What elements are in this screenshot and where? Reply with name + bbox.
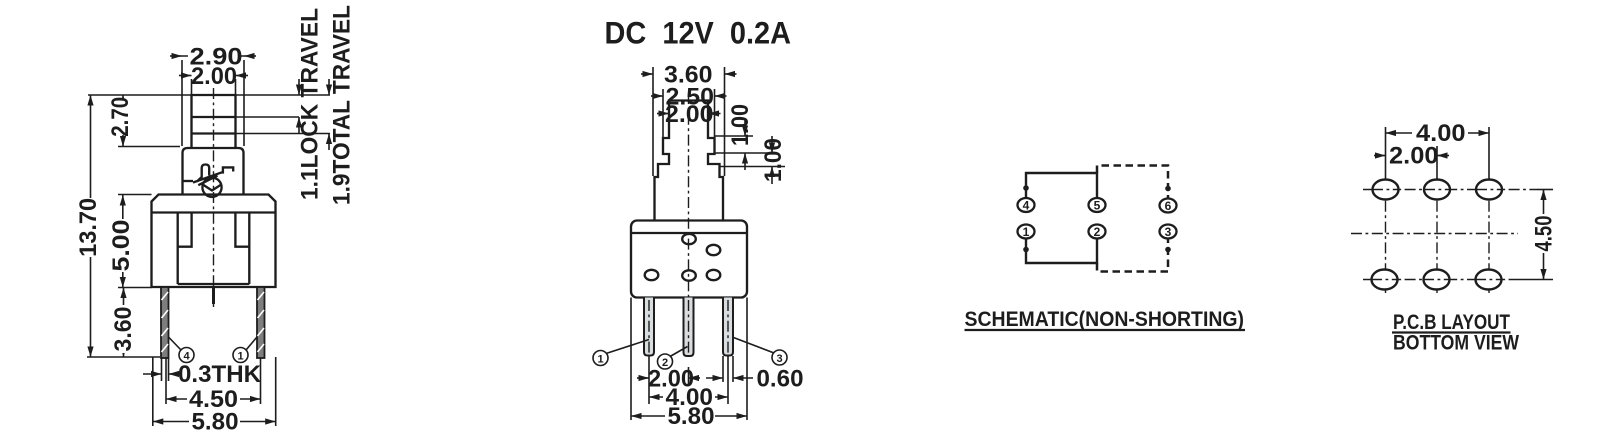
pad 6 row2 xyxy=(1476,270,1502,290)
dimension 3.60 arrows xyxy=(641,73,653,75)
svg-text:SCHEMATIC(NON-SHORTING): SCHEMATIC(NON-SHORTING) xyxy=(965,307,1245,331)
dimension 5.80 extension lines xyxy=(152,357,154,426)
0.3THK pin thickness ticks xyxy=(161,358,163,381)
extension line 5.00 top xyxy=(118,194,152,196)
dimension 0.60 arrows xyxy=(706,377,723,379)
svg-text:0.3THK: 0.3THK xyxy=(178,361,262,388)
junction dot below terminal 3 xyxy=(1165,247,1171,253)
terminal 6 xyxy=(1160,199,1177,213)
plunger wide section xyxy=(183,148,244,195)
dimension 1.00 lower arrows xyxy=(771,136,773,153)
extension line 2.70 bottom xyxy=(118,146,180,148)
bottom extension lines front view xyxy=(630,298,632,421)
svg-text:2.70: 2.70 xyxy=(107,97,134,137)
terminal 4 xyxy=(1018,198,1035,212)
junction dot above terminal 4 xyxy=(1023,185,1029,191)
svg-text:2.00: 2.00 xyxy=(191,63,237,90)
total travel dimension arrows xyxy=(328,79,330,95)
label circle 1 xyxy=(233,337,257,363)
pad 5 row2 xyxy=(1424,270,1450,290)
label circle 1 front xyxy=(593,340,649,366)
body inner bottom line xyxy=(178,283,250,285)
svg-text:1.1LOCK TRAVEL: 1.1LOCK TRAVEL xyxy=(297,8,324,200)
extension line collar top y=166.5 xyxy=(720,166,786,168)
dimension 4.50 line xyxy=(166,398,261,400)
lock cam chimney xyxy=(197,165,209,182)
pad 1 row1 xyxy=(1373,180,1399,200)
top extension line y=95 xyxy=(88,94,330,96)
svg-text:0.60: 0.60 xyxy=(757,366,804,393)
svg-text:5.80: 5.80 xyxy=(192,409,239,436)
pin 4 (left, hatched) xyxy=(161,287,169,358)
dimension 4.50 connector row1 xyxy=(1537,189,1553,191)
column 2 extension line xyxy=(1436,146,1438,180)
svg-text:3: 3 xyxy=(1165,225,1172,239)
switch body front view xyxy=(631,221,747,298)
dimension 2.00 bottom arrows xyxy=(637,377,649,379)
wire solid pole 1-2 xyxy=(1026,240,1097,264)
lock cam left ledge xyxy=(183,180,194,182)
dimension 4.50 line pcb xyxy=(1543,190,1545,280)
dimension 3.60 line xyxy=(123,288,125,358)
svg-text:1.9TOTAL TRAVEL: 1.9TOTAL TRAVEL xyxy=(329,5,356,205)
dimension 4.00 line pcb xyxy=(1386,132,1490,134)
hole mid left xyxy=(645,270,659,280)
dimension 1.00 upper arrows xyxy=(744,119,746,136)
lock cam V mark xyxy=(204,185,221,191)
extension line ring top y=136 xyxy=(715,135,754,137)
junction dot above terminal 6 xyxy=(1165,186,1171,192)
dimension 2.00 extension lines xyxy=(191,79,193,95)
LEFT SIDE VIEW GROUP xyxy=(75,5,356,436)
dimension 5.00 line xyxy=(122,195,124,288)
svg-text:2: 2 xyxy=(1094,225,1101,239)
dimension 4.00 line xyxy=(649,396,728,398)
svg-text:1: 1 xyxy=(597,354,603,366)
extension line pin bottom y=357 xyxy=(87,356,160,358)
svg-text:5: 5 xyxy=(1094,198,1101,212)
terminal 2 xyxy=(1089,225,1106,239)
dimension 5.80 line xyxy=(153,421,276,423)
svg-text:1: 1 xyxy=(1023,225,1030,239)
dimension 3.60 extension lines xyxy=(652,67,654,176)
svg-text:2.00: 2.00 xyxy=(1389,143,1439,170)
front pin 3 (right) xyxy=(723,298,733,356)
plunger stepped shaft front view xyxy=(655,101,724,221)
body inner left vertical xyxy=(177,213,179,285)
hole top center xyxy=(682,234,696,244)
hole mid center xyxy=(682,270,696,280)
lock cam right bracket xyxy=(223,167,233,173)
plunger shaft division line lower (total travel) xyxy=(192,132,236,134)
0.3THK leader arrows xyxy=(143,373,162,375)
lock travel extension line y=117 xyxy=(236,116,300,118)
dimension 2.00 arrows (top) xyxy=(657,113,669,115)
front pin 1 (left) xyxy=(644,298,654,356)
terminal 3 xyxy=(1160,225,1177,239)
svg-text:6: 6 xyxy=(1165,199,1172,213)
dimension 5.80 line front xyxy=(631,415,747,417)
dimension 4.50 connector row2 xyxy=(1512,279,1553,281)
middle horizontal centerline xyxy=(1351,233,1518,235)
plunger shaft division line upper (lock travel) xyxy=(192,116,236,118)
column 2 centerline xyxy=(1436,180,1438,293)
pin 1 (right, hatched) xyxy=(257,287,265,358)
center stub pin xyxy=(212,287,215,304)
svg-text:3: 3 xyxy=(776,353,782,365)
svg-text:1.00: 1.00 xyxy=(760,138,787,182)
svg-text:5.80: 5.80 xyxy=(668,403,715,430)
SCHEMATIC GROUP xyxy=(965,166,1246,332)
plunger narrow shaft side view xyxy=(192,95,236,148)
switch body outline side view xyxy=(152,195,276,288)
PCB LAYOUT GROUP xyxy=(1351,120,1558,355)
dimension 2.90 extension lines xyxy=(181,60,183,146)
extension line ring bottom y=153 xyxy=(715,152,778,154)
column 1 extension line xyxy=(1385,127,1387,180)
dimension 2.00 arrows pcb xyxy=(1374,155,1386,157)
lock cam lever diagonal 2 xyxy=(198,176,217,186)
pad 4 row2 xyxy=(1372,270,1398,290)
pad crosshair lines row2 xyxy=(1371,279,1398,281)
dimension 2.50 arrows xyxy=(651,95,663,97)
pad 3 row1 xyxy=(1476,180,1502,200)
svg-text:3.60: 3.60 xyxy=(110,307,137,352)
svg-text:5.00: 5.00 xyxy=(108,220,135,272)
body inner left notch xyxy=(178,213,192,247)
svg-text:4.50: 4.50 xyxy=(1531,216,1558,252)
column 3 centerline xyxy=(1488,180,1490,293)
body inner right vertical xyxy=(248,213,250,285)
pad 2 row1 xyxy=(1424,180,1450,200)
dimension 2.70 line xyxy=(122,95,124,147)
lock travel dimension arrows xyxy=(298,79,300,95)
label circle 3 front xyxy=(734,338,788,366)
svg-text:4: 4 xyxy=(1023,198,1030,212)
total travel extension line y=133.5 xyxy=(236,133,331,135)
schematic caption underline xyxy=(965,329,1246,331)
svg-text:BOTTOM VIEW: BOTTOM VIEW xyxy=(1393,331,1520,355)
svg-text:13.70: 13.70 xyxy=(75,198,102,257)
pad row 2 centerline xyxy=(1363,279,1512,281)
wire dashed pole 5-6 xyxy=(1097,166,1168,199)
terminal 5 xyxy=(1089,198,1106,212)
terminal 1 xyxy=(1018,225,1035,239)
lock cam circle xyxy=(202,178,221,197)
MIDDLE FRONT VIEW GROUP xyxy=(593,15,804,431)
body lid line xyxy=(152,211,276,213)
label circle 4 xyxy=(169,337,195,363)
column 1 centerline xyxy=(1385,180,1387,293)
body inner right notch xyxy=(235,213,249,247)
front pin 2 (center) xyxy=(684,298,694,357)
svg-text:DC 12V 0.2A: DC 12V 0.2A xyxy=(605,15,792,51)
dimension 2.90 line and arrows xyxy=(182,55,244,57)
pad row 1 centerline xyxy=(1363,189,1537,191)
hole mid right xyxy=(707,270,721,280)
dimension 4.50 extension lines xyxy=(165,358,167,404)
wire solid pole 4-5 xyxy=(1026,173,1097,198)
dimension 13.70 line xyxy=(90,95,92,357)
body lid line front view xyxy=(631,232,747,234)
lock cam lever diagonal 1 xyxy=(193,172,222,182)
svg-text:2.00: 2.00 xyxy=(665,101,714,128)
hole upper right xyxy=(707,245,721,255)
caption underline xyxy=(1392,331,1511,333)
extension line body bottom left xyxy=(118,287,152,289)
dimension 2.00 arrows xyxy=(179,75,192,77)
pad crosshair lines row1 xyxy=(1372,189,1399,191)
svg-text:1.00: 1.00 xyxy=(727,104,754,146)
junction dot below terminal 1 xyxy=(1023,247,1029,253)
label circle 2 front xyxy=(658,347,688,370)
column 3 extension line xyxy=(1488,127,1490,180)
centerline of switch side view xyxy=(213,88,215,308)
wire dashed pole 2-3 xyxy=(1097,240,1168,272)
dimension 2.50 extension lines xyxy=(662,89,664,137)
centerline of front view xyxy=(688,93,690,308)
